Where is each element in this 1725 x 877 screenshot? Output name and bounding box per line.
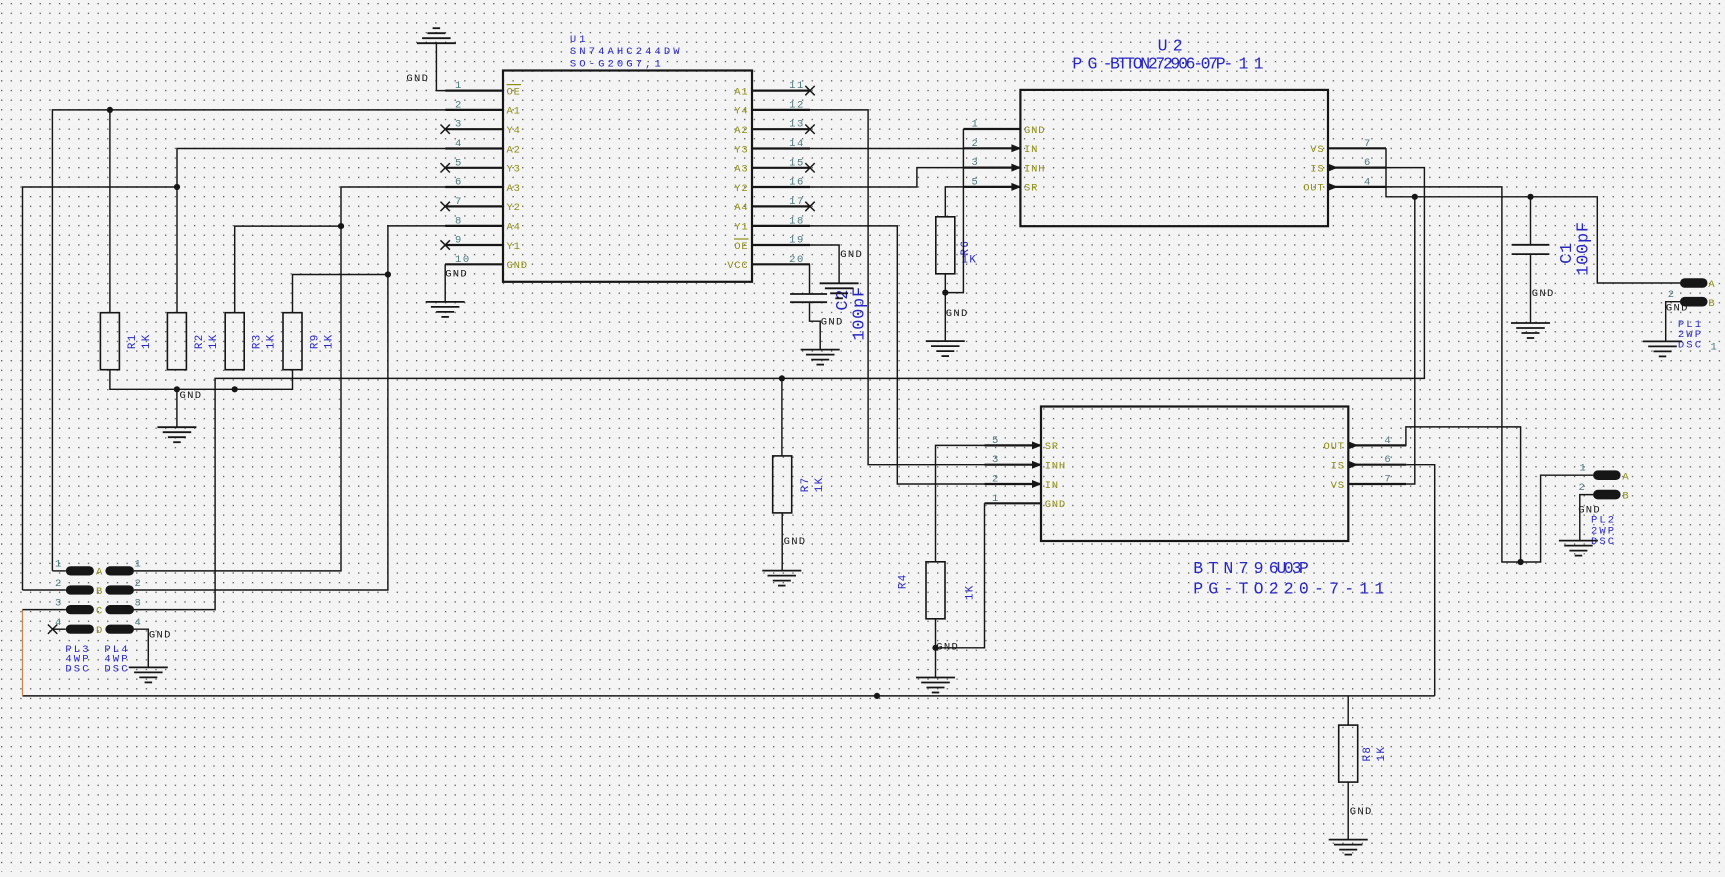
svg-text:GND: GND bbox=[149, 630, 172, 642]
U1 pin 3 line bbox=[445, 128, 503, 130]
U1 pin 7 line bbox=[445, 205, 503, 207]
svg-text:IS: IS bbox=[1310, 163, 1324, 175]
svg-text:18: 18 bbox=[789, 215, 805, 227]
svg-text:4: 4 bbox=[1364, 176, 1372, 188]
svg-text:A: A bbox=[1708, 279, 1715, 291]
wire bus riser to PL3 C bbox=[22, 610, 24, 696]
ground PL2 bbox=[1559, 541, 1598, 556]
svg-text:A4: A4 bbox=[507, 222, 521, 234]
no-connect X pin 17 bbox=[805, 202, 814, 211]
wire PL3 D stub bbox=[53, 628, 66, 630]
svg-text:1K: 1K bbox=[1376, 746, 1388, 762]
ground U1 pin19 bbox=[820, 283, 859, 298]
no-connect X PL3 pin 4 bbox=[48, 625, 57, 634]
IC U3 box BTN7960P half-bridge driver bbox=[1041, 407, 1348, 542]
svg-text:1: 1 bbox=[972, 119, 980, 131]
svg-text:GND: GND bbox=[1666, 303, 1689, 315]
svg-text:SO-G20G7,1: SO-G20G7,1 bbox=[570, 58, 664, 70]
svg-text:R7: R7 bbox=[800, 477, 812, 493]
ground R8 bbox=[1329, 840, 1368, 855]
svg-text:7: 7 bbox=[455, 196, 463, 208]
wire U1 pin16 Y2 to U2 INH bbox=[810, 168, 963, 187]
svg-text:A2: A2 bbox=[734, 125, 748, 137]
U2 pin 5 line SR bbox=[963, 186, 1020, 188]
svg-text:Y4: Y4 bbox=[507, 125, 521, 137]
wire bottom bus bbox=[23, 695, 1435, 697]
resistor R4 1K bbox=[926, 562, 945, 619]
svg-text:VS: VS bbox=[1331, 480, 1345, 492]
resistor R6 1K bbox=[936, 217, 955, 274]
svg-text:100pF: 100pF bbox=[851, 286, 870, 341]
wire C1 top lead bbox=[1530, 197, 1532, 245]
U1 pin 1 line bbox=[445, 89, 503, 91]
svg-text:1: 1 bbox=[55, 559, 63, 571]
svg-text:4: 4 bbox=[55, 617, 63, 629]
svg-text:GND: GND bbox=[507, 260, 528, 272]
svg-text:R9: R9 bbox=[310, 333, 322, 349]
wire net A3: U1 pin6 to R3 and PL4 A bbox=[134, 187, 445, 571]
junction R2 tap bbox=[174, 184, 180, 190]
U1 pin 11 line bbox=[752, 89, 810, 91]
resistor R7 1K bbox=[773, 456, 792, 513]
svg-text:3: 3 bbox=[992, 454, 1000, 466]
U1 pin 10 line bbox=[445, 263, 503, 265]
U2 pin 3 line INH bbox=[963, 167, 1020, 169]
wire U3 GND pin to R4 bottom and ground bbox=[936, 503, 985, 648]
svg-text:7: 7 bbox=[1384, 474, 1392, 486]
resistor R2 1K bbox=[167, 313, 186, 370]
wire U1 pin19 OE to ground bbox=[810, 245, 839, 283]
svg-text:2: 2 bbox=[1579, 482, 1587, 494]
svg-text:SN74AHC244DW: SN74AHC244DW bbox=[570, 46, 683, 58]
svg-text:VS: VS bbox=[1310, 144, 1324, 156]
no-connect X pin 9 bbox=[441, 240, 450, 249]
wire U1 pin20 VCC to C2 bbox=[809, 264, 811, 294]
U2 pin 1 line GND bbox=[963, 128, 1020, 130]
U2 pin 4 line OUT bbox=[1328, 186, 1386, 188]
junction VS to U3 bbox=[1412, 194, 1418, 200]
U1 pin 9 line bbox=[445, 244, 503, 246]
wire GND stub bbox=[176, 389, 178, 427]
connector PL1 2WP DSC bbox=[1680, 278, 1708, 288]
svg-text:Y1: Y1 bbox=[507, 241, 521, 253]
wire U1 pin18 Y1 to U3 IN bbox=[810, 226, 985, 484]
junction bottom bus bbox=[874, 693, 880, 699]
U2 pin 7 line VS bbox=[1328, 147, 1386, 149]
wire R8 top lead bbox=[1347, 696, 1349, 725]
svg-text:OE: OE bbox=[507, 86, 521, 98]
svg-text:1: 1 bbox=[455, 80, 463, 92]
svg-text:Y3: Y3 bbox=[734, 144, 748, 156]
svg-text:GND: GND bbox=[936, 641, 959, 653]
junction R9 tap bbox=[385, 271, 391, 277]
svg-text:5: 5 bbox=[455, 157, 463, 169]
svg-text:GND: GND bbox=[840, 249, 863, 261]
wire PL3 C stub bbox=[23, 609, 66, 611]
wire R4 bottom lead bbox=[935, 619, 937, 648]
U1 pin 2 line bbox=[445, 109, 503, 111]
svg-text:1: 1 bbox=[1711, 342, 1719, 354]
U3 pin 7 line VS bbox=[1348, 483, 1406, 485]
wire C2 to ground bbox=[810, 302, 821, 349]
resistor R1 1K bbox=[100, 313, 119, 370]
wire R1 top lead bbox=[109, 110, 111, 313]
svg-text:4: 4 bbox=[135, 617, 143, 629]
svg-text:20: 20 bbox=[789, 254, 805, 266]
svg-text:INH: INH bbox=[1024, 163, 1045, 175]
junction R7 tap bbox=[779, 375, 785, 381]
svg-text:3: 3 bbox=[135, 597, 143, 609]
svg-text:R8: R8 bbox=[1362, 746, 1374, 762]
svg-text:1: 1 bbox=[992, 493, 1000, 505]
svg-text:BTN7960P: BTN7960P bbox=[1110, 55, 1231, 74]
svg-text:2: 2 bbox=[1668, 289, 1676, 301]
U1 pin 12 line bbox=[752, 109, 810, 111]
no-connect X pin 13 bbox=[805, 125, 814, 134]
wire U3 OUT riser bbox=[1406, 427, 1521, 562]
wire R7 top lead bbox=[781, 378, 783, 456]
svg-text:1: 1 bbox=[1580, 462, 1588, 474]
svg-text:A1: A1 bbox=[734, 86, 748, 98]
U1 pin 6 line bbox=[445, 186, 503, 188]
svg-text:8: 8 bbox=[455, 215, 463, 227]
resistor R9 1K bbox=[283, 313, 302, 370]
no-connect X pin 7 bbox=[441, 202, 450, 211]
svg-text:INH: INH bbox=[1045, 461, 1066, 473]
svg-text:3: 3 bbox=[55, 597, 63, 609]
svg-text:Y2: Y2 bbox=[507, 202, 521, 214]
svg-text:A3: A3 bbox=[507, 183, 521, 195]
wire GND bus under resistors bbox=[110, 370, 293, 390]
svg-text:IN: IN bbox=[1024, 144, 1038, 156]
svg-text:17: 17 bbox=[789, 196, 805, 208]
svg-text:12: 12 bbox=[789, 99, 805, 111]
svg-text:GND: GND bbox=[1024, 125, 1045, 137]
junction R3 bottom bbox=[232, 386, 238, 392]
wire R7 to ground bbox=[781, 513, 783, 571]
svg-text:1K: 1K bbox=[208, 333, 220, 349]
svg-text:3: 3 bbox=[455, 119, 463, 131]
svg-text:SR: SR bbox=[1024, 183, 1038, 195]
U3 pin 2 line IN bbox=[985, 483, 1042, 485]
svg-text:C: C bbox=[96, 605, 103, 617]
svg-text:2: 2 bbox=[455, 99, 463, 111]
connector PL2 2WP DSC bbox=[1593, 470, 1621, 480]
wire net IS2: U3 IS to bottom bus bbox=[1406, 465, 1434, 696]
svg-text:2: 2 bbox=[55, 578, 63, 590]
svg-text:DSC: DSC bbox=[104, 663, 129, 675]
svg-text:R1: R1 bbox=[127, 333, 139, 349]
svg-text:2: 2 bbox=[972, 138, 980, 150]
svg-text:A1: A1 bbox=[507, 106, 521, 118]
svg-text:R4: R4 bbox=[898, 573, 910, 589]
ground R6 bbox=[926, 341, 965, 356]
svg-text:13: 13 bbox=[789, 119, 805, 131]
svg-text:A4: A4 bbox=[734, 202, 748, 214]
junction R4 gnd bbox=[932, 645, 938, 651]
svg-text:IN: IN bbox=[1045, 480, 1059, 492]
svg-text:1K: 1K bbox=[965, 584, 977, 600]
svg-text:Y2: Y2 bbox=[734, 183, 748, 195]
U3 pin 5 line SR bbox=[985, 444, 1042, 446]
svg-text:DSC: DSC bbox=[65, 663, 90, 675]
svg-text:IS: IS bbox=[1331, 461, 1345, 473]
wire net VS: U2 VS to PL1 A bbox=[1386, 148, 1680, 283]
wire R4 junction to ground bbox=[935, 648, 937, 678]
svg-text:1K: 1K bbox=[324, 333, 336, 349]
wire U3 SR to R4 bbox=[936, 445, 985, 561]
svg-text:7: 7 bbox=[1364, 138, 1372, 150]
U1 pin 20 line bbox=[752, 263, 810, 265]
svg-text:GND: GND bbox=[821, 316, 844, 328]
U1 pin 15 line bbox=[752, 167, 810, 169]
wire U1 pin12 Y4 to U3 INH bbox=[810, 110, 985, 465]
wire R6 junction to ground bbox=[944, 293, 946, 342]
svg-text:2: 2 bbox=[135, 578, 143, 590]
svg-text:14: 14 bbox=[789, 138, 805, 150]
svg-text:6: 6 bbox=[1364, 157, 1372, 169]
junction OUT nets bbox=[1518, 559, 1524, 565]
svg-text:Y3: Y3 bbox=[507, 164, 521, 176]
U1 pin 16 line bbox=[752, 186, 810, 188]
svg-text:SR: SR bbox=[1045, 441, 1059, 453]
wire net A4: U1 pin8 to R9 and PL4 B bbox=[134, 226, 445, 590]
ground U1 pin10 bbox=[426, 302, 465, 317]
IC U2 box BTN7960P half-bridge driver bbox=[1020, 90, 1328, 226]
wire R8 to ground bbox=[1347, 782, 1349, 840]
svg-text:1: 1 bbox=[135, 559, 143, 571]
junction R1 top bbox=[107, 107, 113, 113]
ground C1 bbox=[1511, 323, 1550, 338]
svg-text:4: 4 bbox=[1384, 435, 1392, 447]
svg-text:GND: GND bbox=[445, 269, 468, 281]
svg-text:3: 3 bbox=[972, 157, 980, 169]
capacitor C1 100pF bbox=[1512, 245, 1550, 254]
svg-text:Y1: Y1 bbox=[734, 222, 748, 234]
U1 pin 17 line bbox=[752, 205, 810, 207]
svg-text:16: 16 bbox=[789, 177, 805, 189]
svg-text:B: B bbox=[96, 586, 103, 598]
junction R3 tap bbox=[338, 223, 344, 229]
wire net IS: U2 IS to R7 and PL4 C bbox=[134, 168, 1424, 610]
junction C1 tap bbox=[1527, 194, 1533, 200]
ground under resistor bus bbox=[157, 427, 196, 442]
svg-text:4: 4 bbox=[455, 138, 463, 150]
wire U1 pin14 Y3 to U2 IN bbox=[810, 148, 963, 150]
svg-text:15: 15 bbox=[789, 157, 805, 169]
svg-text:10: 10 bbox=[455, 254, 471, 266]
svg-text:6: 6 bbox=[1384, 454, 1392, 466]
svg-text:A2: A2 bbox=[507, 144, 521, 156]
svg-text:A3: A3 bbox=[734, 164, 748, 176]
svg-text:U3: U3 bbox=[1277, 559, 1307, 578]
U1 pin 19 line bbox=[752, 244, 810, 246]
wire U2 SR to R6 bbox=[945, 187, 963, 216]
U2 pin 2 line IN bbox=[963, 147, 1020, 149]
resistor R3 1K bbox=[225, 313, 244, 370]
wire U1 pin10 to ground bbox=[444, 264, 446, 302]
connector PL3 4WP DSC bbox=[66, 566, 94, 575]
ground PL1 bbox=[1643, 341, 1682, 356]
svg-text:B: B bbox=[1622, 491, 1629, 503]
U3 pin 1 line GND bbox=[985, 502, 1042, 504]
wire net A2: U1 pin4 to R2 and PL3 B bbox=[177, 149, 445, 313]
wire VS down to U3 VS bbox=[1406, 197, 1415, 484]
no-connect X pin 5 bbox=[441, 163, 450, 172]
connector PL4 4WP DSC bbox=[105, 566, 134, 575]
wire net OUT: U2 OUT joins U3 OUT to PL2 A bbox=[1386, 187, 1593, 562]
IC U1 box SN74AHC244DW bbox=[503, 71, 752, 282]
svg-text:1K: 1K bbox=[141, 333, 153, 349]
svg-text:GND: GND bbox=[406, 73, 429, 85]
capacitor C2 100pF bbox=[790, 294, 827, 302]
svg-text:5: 5 bbox=[972, 176, 980, 188]
svg-text:1K: 1K bbox=[266, 333, 278, 349]
junction R6 gnd bbox=[942, 290, 948, 296]
wire R6 bottom lead bbox=[944, 274, 946, 293]
no-connect X pin 3 bbox=[441, 125, 450, 134]
wire net A1: U1 pin2 to PL3 A and R1 bbox=[52, 110, 445, 571]
svg-text:11: 11 bbox=[789, 80, 805, 92]
ground C2 bbox=[801, 350, 840, 365]
svg-text:GND: GND bbox=[1532, 288, 1555, 300]
svg-text:OUT: OUT bbox=[1323, 441, 1344, 453]
junction R2 bottom bbox=[174, 386, 180, 392]
U1 pin 18 line bbox=[752, 225, 810, 227]
svg-text:2: 2 bbox=[992, 474, 1000, 486]
svg-text:R6: R6 bbox=[960, 240, 972, 256]
svg-text:D: D bbox=[96, 625, 103, 637]
svg-text:1K: 1K bbox=[814, 477, 826, 493]
ground R7 bbox=[762, 571, 801, 586]
U3 pin 6 line IS bbox=[1348, 464, 1406, 466]
wire PL1 B to ground bbox=[1666, 302, 1680, 342]
svg-text:U2: U2 bbox=[1158, 37, 1188, 56]
ground PL4 D bbox=[129, 667, 168, 682]
svg-text:A: A bbox=[1622, 471, 1629, 483]
svg-text:100pF: 100pF bbox=[1575, 221, 1594, 276]
svg-text:A: A bbox=[96, 567, 103, 579]
no-connect X pin 15 bbox=[805, 163, 814, 172]
svg-text:U1: U1 bbox=[570, 34, 589, 46]
svg-text:GND: GND bbox=[1350, 806, 1373, 818]
svg-text:GND: GND bbox=[946, 308, 969, 320]
wire PL4 D to ground bbox=[134, 629, 148, 667]
svg-text:19: 19 bbox=[789, 235, 805, 247]
wire C1 to ground bbox=[1530, 254, 1532, 323]
U3 pin 3 line INH bbox=[985, 464, 1042, 466]
wire PL2 B to ground bbox=[1580, 495, 1593, 541]
U1 pin 14 line bbox=[752, 147, 810, 149]
svg-text:Y4: Y4 bbox=[734, 106, 748, 118]
wire U2 GND pin to R6 bottom and ground bbox=[945, 129, 963, 293]
svg-text:6: 6 bbox=[455, 177, 463, 189]
svg-text:GND: GND bbox=[180, 390, 203, 402]
svg-text:DSC: DSC bbox=[1591, 536, 1616, 548]
svg-text:OUT: OUT bbox=[1303, 183, 1324, 195]
svg-text:GND: GND bbox=[784, 536, 807, 548]
svg-text:OE: OE bbox=[734, 241, 748, 253]
svg-text:GND: GND bbox=[1045, 499, 1066, 511]
wire GND to U1 pin 1 bbox=[436, 43, 445, 90]
svg-text:R2: R2 bbox=[194, 333, 206, 349]
svg-text:5: 5 bbox=[992, 435, 1000, 447]
ground R4 bbox=[916, 678, 955, 693]
svg-text:B: B bbox=[1708, 298, 1715, 310]
U1 pin 13 line bbox=[752, 128, 810, 130]
U2 pin 6 line IS bbox=[1328, 167, 1386, 169]
svg-text:GND: GND bbox=[1578, 505, 1601, 517]
U1 pin 8 line bbox=[445, 225, 503, 227]
svg-text:VCC: VCC bbox=[727, 260, 748, 272]
svg-text:R3: R3 bbox=[252, 333, 264, 349]
svg-text:PG-TO220-7-11: PG-TO220-7-11 bbox=[1193, 579, 1389, 598]
svg-text:9: 9 bbox=[455, 235, 463, 247]
U3 pin 4 line OUT bbox=[1348, 444, 1406, 446]
U1 pin 5 line bbox=[445, 167, 503, 169]
ground top-left inverted bbox=[417, 28, 456, 43]
U1 pin 4 line bbox=[445, 147, 503, 149]
resistor R8 1K bbox=[1339, 725, 1358, 782]
no-connect X pin 11 bbox=[805, 86, 814, 95]
